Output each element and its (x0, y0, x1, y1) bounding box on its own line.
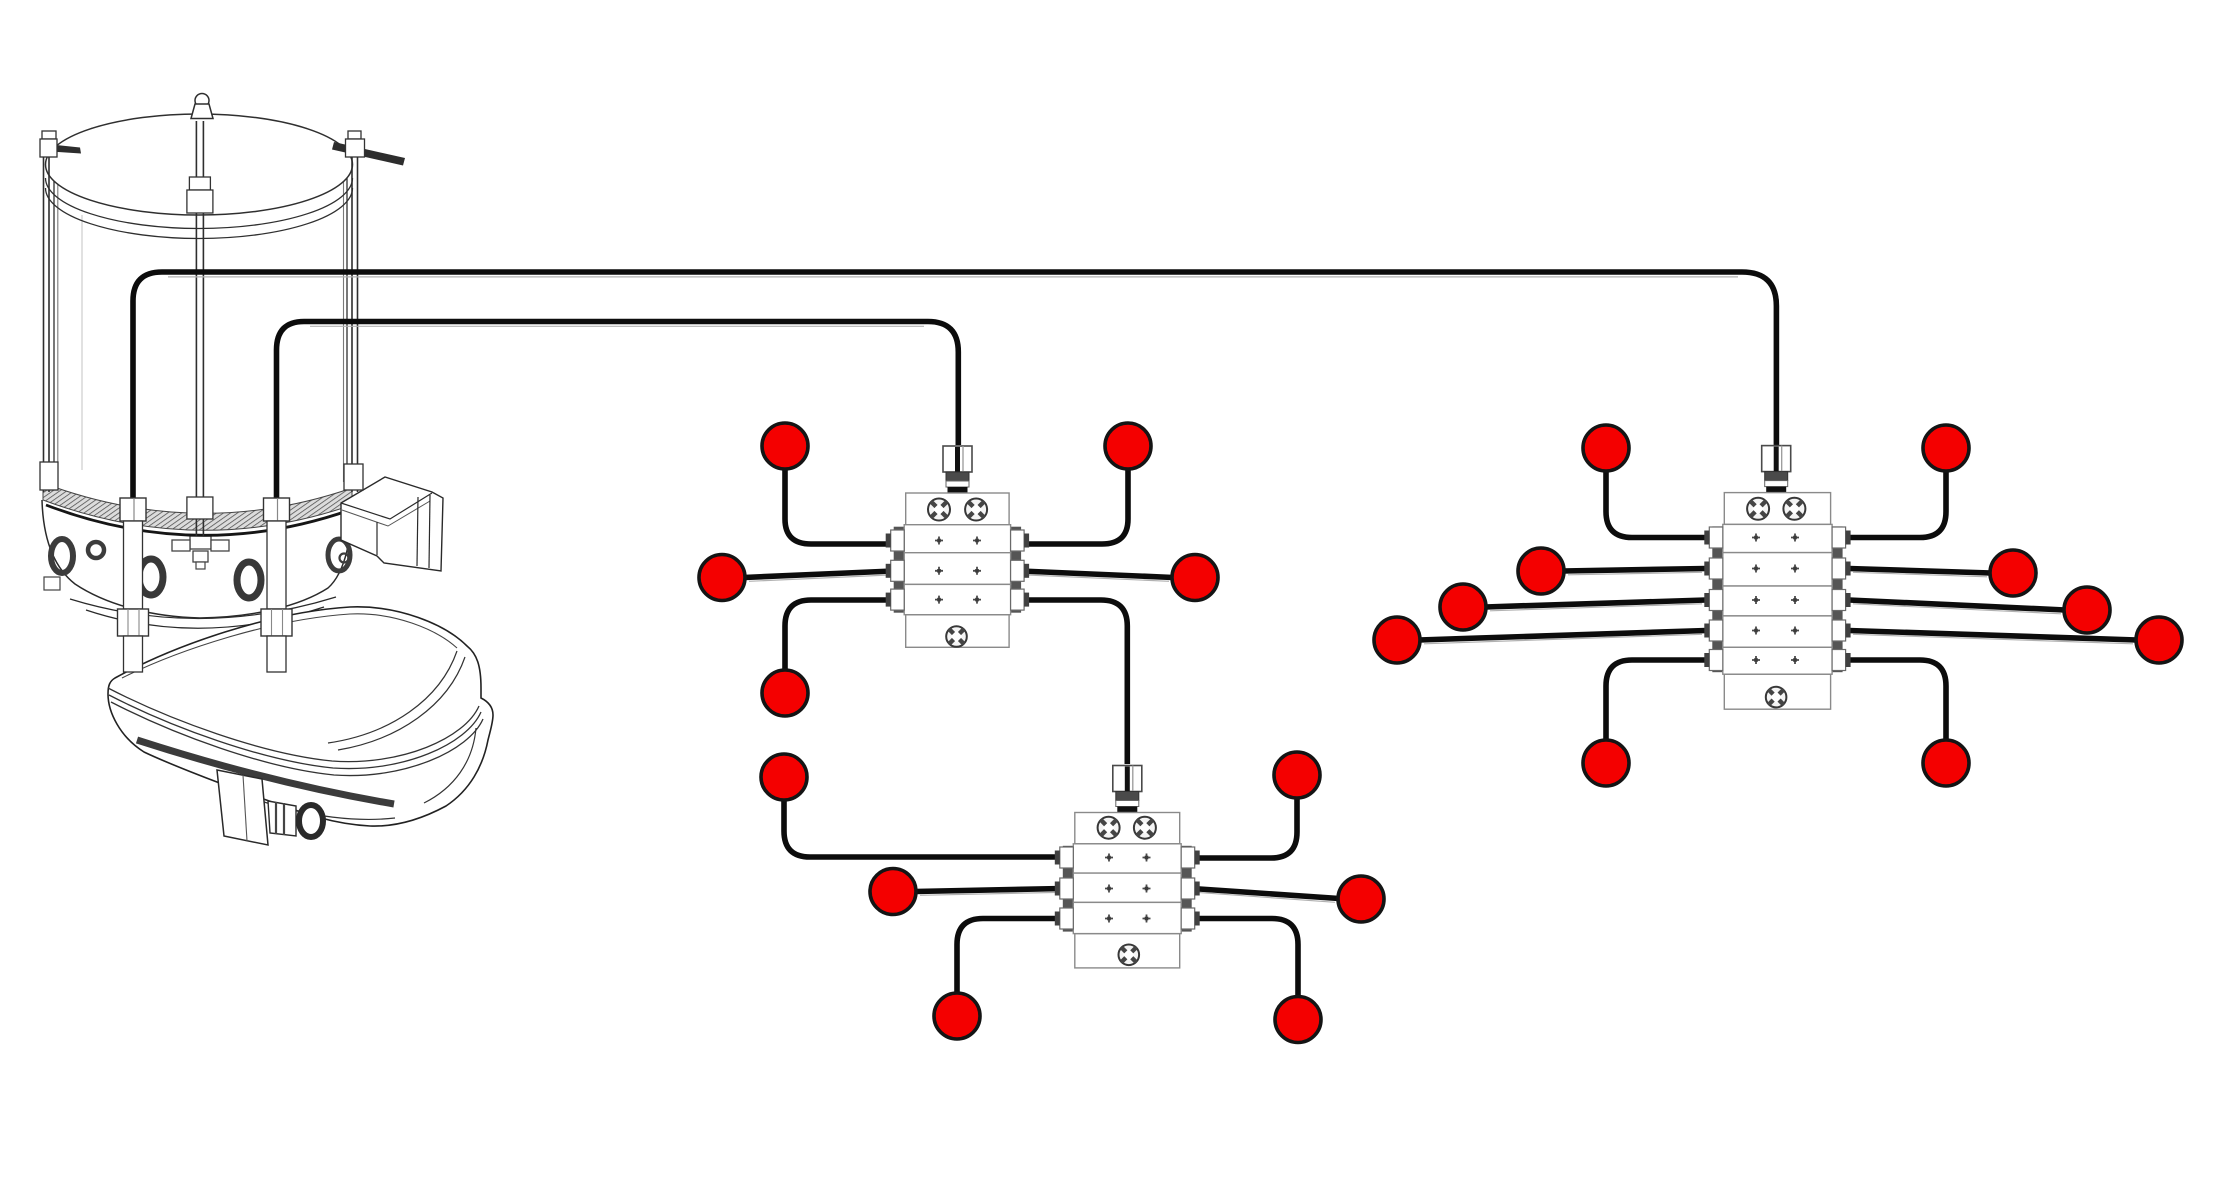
tube: DV2 row2 left outlet to lube point LP8 (915, 889, 1062, 896)
lubrication point LP21 (1923, 740, 1969, 786)
lubrication point LP2 (1105, 423, 1151, 469)
divider valve DV3: bottom bolt (1766, 687, 1787, 708)
tube: DV2 row1 left outlet to lube point LP6 (784, 799, 1062, 857)
tube: DV3 row3 left outlet to lube point LP16 (1485, 600, 1706, 611)
tube: DV3 row1 left outlet to lube point LP12 (1606, 471, 1706, 538)
grease pump: hatched base rim (43, 483, 352, 535)
divider valve DV2: bottom bolt (1119, 945, 1140, 966)
lubrication point LP14 (1518, 548, 1564, 594)
lubrication point LP8 (870, 869, 916, 915)
divider valve DV1: inlet fitting (943, 446, 972, 493)
lubrication point LP11 (1275, 997, 1321, 1043)
lubrication point LP13 (1923, 425, 1969, 471)
grease pump: lower gear housing (108, 607, 493, 826)
divider valve DV3: outlet check dots (1752, 534, 1799, 665)
grease pump: tie rod left (40, 131, 58, 492)
divider valve DV2: top bolts (1098, 817, 1156, 839)
grease pump: tie rod right (344, 131, 365, 492)
tube: DV1 row3 left outlet to lube point LP5 (785, 600, 893, 671)
tube: DV2 row2 right outlet to lube point LP9 (1192, 889, 1339, 903)
lubrication point LP10 (934, 993, 980, 1039)
divider valve DV2: side outlet fittings (1055, 847, 1200, 929)
tube: DV1 row2 left outlet to lube point LP3 (744, 571, 893, 581)
tube: DV3 row2 right outlet to lube point LP15 (1849, 569, 1991, 577)
tube: DV1 row2 right outlet to lube point LP4 (1021, 571, 1173, 581)
grease pump: center tie rod (187, 121, 213, 536)
lubrication point LP3 (699, 555, 745, 601)
tube: DV3 row5 left outlet to lube point LP20 (1606, 660, 1706, 740)
lubrication point LP6 (761, 754, 807, 800)
grease pump: outlet fitting 2 (261, 498, 292, 672)
divider valve DV3: side outlet fittings (1704, 527, 1850, 671)
lubrication point LP12 (1583, 425, 1629, 471)
divider valve DV1: top bolts (928, 499, 987, 521)
grease pump: reservoir lid (42, 94, 405, 239)
divider valve DV3: body (1712, 493, 1842, 710)
divider valve DV3: top bolts (1747, 498, 1805, 520)
lubrication point LP15 (1990, 550, 2036, 596)
lubrication point LP9 (1338, 876, 1384, 922)
divider valve DV2: outlet check dots (1105, 854, 1151, 923)
tube: DV2 row3 left outlet to lube point LP10 (957, 919, 1062, 995)
grease pump: grease connector (268, 801, 323, 837)
lubrication point LP5 (762, 670, 808, 716)
divider valve DV1: bottom bolt (946, 626, 967, 647)
tube: DV3 row2 left outlet to lube point LP14 (1563, 569, 1706, 575)
divider valve DV2: inlet fitting (1113, 766, 1142, 813)
grease pump: base housing drum (42, 500, 352, 628)
lubrication point LP4 (1172, 555, 1218, 601)
tube: DV1 row1 right outlet to lube point LP2 (1021, 468, 1128, 544)
lubrication point LP19 (2136, 617, 2182, 663)
lubrication point LP16 (1440, 584, 1486, 630)
lubrication point LP17 (2064, 587, 2110, 633)
lubrication point LP20 (1583, 740, 1629, 786)
tube: DV3 row5 right outlet to lube point LP21 (1849, 660, 1946, 740)
supply tube A: pump outlet 1 to divider valve DV3 inlet (133, 272, 1776, 498)
grease pump: outlet fitting 1 (118, 498, 149, 672)
grease pump: outlet box (217, 770, 268, 845)
divider valve DV1: body (894, 493, 1021, 647)
grease pump: mounting bracket (341, 477, 443, 571)
divider valve DV1: side outlet fittings (886, 530, 1029, 610)
tube: DV1 row3 right outlet to DV2 inlet (1021, 600, 1127, 764)
tube: DV3 row1 right outlet to lube point LP13 (1849, 471, 1946, 538)
tube: DV1 row1 left outlet to lube point LP1 (785, 468, 893, 544)
divider valve DV3: inlet fitting (1762, 446, 1791, 493)
lubrication point LP7 (1274, 752, 1320, 798)
divider valve DV1: outlet check dots (935, 537, 981, 604)
supply tube B: pump outlet 2 to divider valve DV1 inlet (277, 322, 959, 499)
tube: DV2 row1 right outlet to lube point LP7 (1192, 797, 1297, 858)
tube: DV3 row3 right outlet to lube point LP17 (1849, 600, 2065, 614)
grease pump: reservoir cylinder walls (54, 172, 347, 482)
divider valve DV2: body (1063, 813, 1192, 968)
lubrication point LP18 (1374, 617, 1420, 663)
tube: DV2 row3 right outlet to lube point LP11 (1192, 919, 1298, 998)
tube: DV3 row4 left outlet to lube point LP18 (1419, 631, 1706, 644)
tube: DV3 row4 right outlet to lube point LP19 (1849, 631, 2137, 644)
lubrication point LP1 (762, 423, 808, 469)
